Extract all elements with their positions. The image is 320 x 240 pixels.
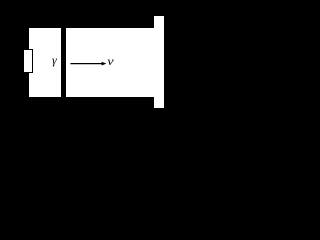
svg-text:γ: γ xyxy=(52,53,57,67)
svg-text:v: v xyxy=(107,54,114,67)
